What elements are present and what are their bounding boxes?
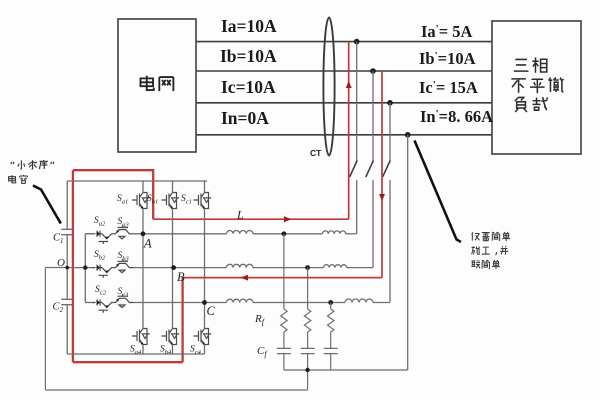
wire drop-a lower bbox=[356, 180, 358, 234]
node C bbox=[202, 300, 207, 305]
arrow annotation parallel pointer bbox=[415, 141, 462, 243]
transistor Sc2 bbox=[92, 300, 113, 313]
transistor Sb4 bbox=[162, 329, 180, 346]
text 电容 annotation row2 bbox=[9, 175, 28, 184]
wire filter leg2 upper bbox=[307, 268, 309, 309]
wire filter leg3 mid bbox=[330, 332, 332, 348]
svg-text:Ib'=10A: Ib'=10A bbox=[419, 49, 476, 68]
wire filter leg2 mid bbox=[307, 332, 309, 348]
transistor Sc4 bbox=[194, 329, 212, 346]
transistor Sb2 bbox=[92, 265, 113, 278]
wire drop-a upper bbox=[356, 42, 358, 161]
wire DC bottom rail bbox=[67, 353, 204, 355]
arrow red down on b-drop bbox=[379, 194, 385, 201]
transistor Sc3 bbox=[114, 294, 134, 308]
wire drop-c upper bbox=[389, 103, 391, 161]
svg-text:Ic=10A: Ic=10A bbox=[221, 77, 276, 97]
svg-text:Sc3: Sc3 bbox=[118, 287, 130, 299]
wire phase-C right end bbox=[373, 302, 390, 304]
wire red B riser bbox=[181, 278, 183, 363]
svg-text:Sc2: Sc2 bbox=[95, 285, 107, 297]
wire row-c inner bbox=[113, 302, 205, 304]
wire red riser to top edge bbox=[73, 170, 153, 219]
text 三相 load label row1 bbox=[514, 57, 547, 72]
switch QSb blade bbox=[366, 161, 374, 178]
INVERTER FRAME bbox=[61, 181, 207, 354]
resistor Rf1 bbox=[281, 309, 287, 332]
load box 三相不平衡负载 bbox=[492, 21, 581, 154]
svg-text:Sa1: Sa1 bbox=[117, 194, 128, 206]
svg-text:Ic'= 15A: Ic'= 15A bbox=[419, 78, 478, 97]
grid box 电网 bbox=[118, 19, 196, 152]
transistor Sa4 bbox=[132, 329, 150, 346]
svg-text:CT: CT bbox=[310, 148, 322, 158]
node A-line filter tap bbox=[282, 231, 287, 236]
switch QSa blade bbox=[350, 161, 358, 178]
text 负载 load label row3 bbox=[515, 97, 548, 112]
arrow red up on a-drop bbox=[346, 81, 352, 88]
svg-text:Sb2: Sb2 bbox=[94, 250, 106, 262]
transistor Sc1 bbox=[194, 193, 212, 210]
wire column-c bbox=[204, 181, 206, 354]
wire phase-A row to inductor bbox=[143, 233, 227, 235]
node A bbox=[141, 231, 146, 236]
wire phase-B right end bbox=[347, 267, 373, 269]
PHASE LINES WITH INDUCTORS bbox=[85, 231, 390, 303]
wire phase-c line bbox=[196, 102, 492, 104]
svg-text:Sc4: Sc4 bbox=[190, 345, 202, 357]
wire DC top rail bbox=[67, 180, 207, 182]
wire drop-b upper bbox=[372, 71, 374, 161]
RED COMPENSATION PATH bbox=[73, 42, 382, 363]
transistor Sa1 bbox=[132, 193, 150, 210]
arrow red right on L-run bbox=[284, 216, 292, 222]
node O junction bbox=[83, 265, 87, 269]
text 不平衡 load label row2 bbox=[511, 77, 563, 93]
node C-line filter tap bbox=[328, 300, 333, 305]
wire red left edge bbox=[72, 170, 74, 362]
wire filter leg3 lower bbox=[330, 354, 332, 370]
LABELS LEFT bbox=[220, 16, 277, 128]
transistor Sa3 bbox=[114, 225, 134, 239]
LABELS INVERTER bbox=[53, 194, 216, 356]
wire phase-C mid bbox=[253, 302, 345, 304]
wire DC chain lower bbox=[66, 305, 68, 354]
transistor Sb3 bbox=[114, 259, 134, 273]
inductor Lb1 bbox=[227, 264, 253, 267]
svg-text:Ib=10A: Ib=10A bbox=[220, 46, 277, 66]
wire column-a bbox=[142, 181, 144, 354]
svg-text:Sb3: Sb3 bbox=[118, 251, 130, 263]
inductor Lb2 bbox=[324, 265, 347, 268]
capacitor C2 bbox=[61, 299, 73, 304]
svg-text:Sc1: Sc1 bbox=[181, 194, 192, 206]
wire phase-A right end bbox=[346, 233, 357, 235]
wire red drop from line-a bbox=[348, 42, 350, 220]
wire filter leg1 upper bbox=[283, 234, 285, 309]
svg-text:O: O bbox=[57, 257, 65, 269]
wire phase-a line bbox=[196, 41, 492, 43]
arrow red left on B-run bbox=[241, 275, 249, 281]
LABELS RIGHT bbox=[419, 22, 493, 126]
wire O column bracket bbox=[84, 234, 86, 303]
inductor La1 bbox=[227, 231, 253, 234]
svg-text:Sb4: Sb4 bbox=[160, 345, 172, 357]
svg-text:C2: C2 bbox=[53, 302, 64, 315]
wire row-a stub bbox=[85, 233, 92, 235]
capacitor Cf2 bbox=[301, 348, 315, 353]
text 施工，并 annotation right row2 bbox=[472, 246, 509, 255]
CT ellipse bbox=[323, 18, 334, 156]
wire drop-c lower bbox=[389, 180, 391, 303]
wire left neutral rise bbox=[44, 268, 46, 391]
wire phase-A row left bbox=[85, 233, 92, 235]
wire phase-C row to inductor bbox=[205, 302, 227, 304]
node B bbox=[171, 265, 176, 270]
svg-text:Sa3: Sa3 bbox=[118, 217, 130, 229]
svg-text:Ia=10A: Ia=10A bbox=[221, 16, 277, 36]
node line-b tap bbox=[370, 68, 376, 74]
svg-text:C: C bbox=[207, 304, 216, 318]
svg-text:In'=8. 66A: In'=8. 66A bbox=[420, 107, 493, 126]
resistor Rf2 bbox=[304, 309, 310, 332]
wire filter common rail bbox=[284, 369, 408, 371]
wire row-b inner bbox=[113, 267, 174, 269]
JUNCTION DOTS on mains bbox=[354, 39, 411, 138]
svg-text:Sa4: Sa4 bbox=[130, 345, 142, 357]
arrow annotation capacitor pointer bbox=[33, 186, 61, 224]
svg-text:Cf: Cf bbox=[257, 345, 268, 359]
svg-text:In=0A: In=0A bbox=[221, 108, 269, 128]
wire drop-n bbox=[407, 135, 409, 370]
wire DC chain mid bbox=[66, 235, 68, 300]
svg-text:B: B bbox=[177, 270, 185, 284]
wire neutral stub down bbox=[307, 370, 309, 390]
wire filter leg2 lower bbox=[307, 354, 309, 370]
wire row-b left bbox=[67, 267, 92, 269]
wire filter leg3 upper bbox=[330, 303, 332, 310]
inductor Lc2 bbox=[345, 299, 373, 303]
svg-text:Ia'= 5A: Ia'= 5A bbox=[421, 22, 473, 41]
wire drop-b lower bbox=[372, 180, 374, 268]
text 电网 grid label bbox=[140, 76, 173, 92]
wire O link bbox=[45, 267, 67, 269]
wire phase-b line bbox=[196, 70, 492, 72]
wire phase-A mid bbox=[253, 233, 323, 235]
wire column-b bbox=[172, 181, 174, 354]
node neutral tap bbox=[405, 132, 411, 138]
switch QSc blade bbox=[383, 161, 391, 178]
svg-text:Sa2: Sa2 bbox=[94, 216, 106, 228]
wire neutral line bbox=[196, 134, 492, 136]
wire red bottom edge bbox=[73, 361, 183, 363]
text 联简单 annotation right row3 bbox=[471, 260, 500, 269]
wire red horizontal L-run bbox=[153, 218, 349, 220]
wire phase-B row to inductor bbox=[174, 267, 227, 269]
transistor Sb1 bbox=[162, 193, 180, 210]
svg-text:Rf: Rf bbox=[254, 313, 266, 327]
capacitor C1 bbox=[61, 229, 73, 234]
DROPS AND SWITCHES bbox=[350, 42, 408, 370]
MAIN-LINES bbox=[196, 42, 492, 135]
node B-line filter tap bbox=[305, 265, 310, 270]
wire row-a inner bbox=[113, 233, 144, 235]
wire red B horizontal bbox=[183, 277, 382, 279]
transistor Sa2 bbox=[92, 231, 113, 244]
wire DC chain upper bbox=[66, 181, 68, 229]
wire bottom neutral run bbox=[45, 389, 307, 391]
wire phase-B mid bbox=[253, 267, 324, 269]
wire filter leg1 lower bbox=[283, 354, 285, 370]
wire row-c stub bbox=[85, 302, 92, 304]
CJK GLYPHS bbox=[140, 76, 173, 92]
svg-text:A: A bbox=[143, 237, 152, 251]
inductor La2 bbox=[323, 231, 346, 234]
resistor Rf3 bbox=[328, 309, 334, 332]
capacitor Cf1 bbox=[277, 348, 291, 353]
FILTER NETWORK bbox=[45, 234, 407, 390]
text 仅需简单 annotation right row1 bbox=[472, 232, 511, 241]
node filter rail junction bbox=[305, 368, 309, 372]
capacitor Cf3 bbox=[324, 348, 338, 353]
node line-c tap bbox=[387, 100, 393, 106]
wire filter leg1 mid bbox=[283, 332, 285, 348]
wire red drop from line-b bbox=[381, 71, 383, 278]
inductor Lc1 bbox=[227, 299, 253, 302]
text "小水库" annotation row1 bbox=[11, 160, 54, 169]
node line-a tap bbox=[354, 39, 360, 45]
node chain mid junction bbox=[65, 266, 69, 270]
